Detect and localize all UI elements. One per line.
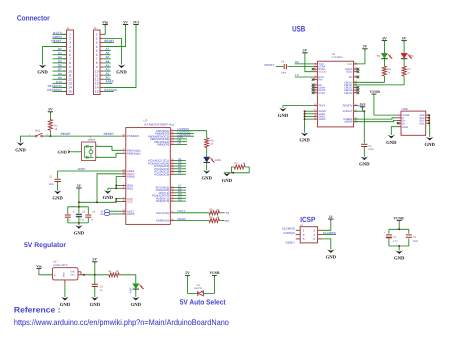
svg-text:J1: J1: [67, 26, 70, 30]
wire R7 ground rail: [224, 172, 249, 174]
svg-text:GND: GND: [201, 175, 212, 181]
svg-text:FT232RL: FT232RL: [332, 56, 343, 59]
wire R6 to RX label: [219, 219, 229, 223]
wire net A3: [175, 165, 187, 167]
wire D13/SCK to R8: [175, 127, 207, 138]
wire 3V3OUT: [354, 107, 365, 111]
wire 5V rail into cap bank: [78, 202, 80, 207]
svg-text:D2: D2: [178, 197, 182, 201]
supply Vin regulator: [36, 264, 41, 268]
wire net D4: [175, 195, 187, 197]
wire net D2: [175, 200, 187, 202]
svg-text:PD1(TXD): PD1(TXD): [156, 211, 169, 215]
svg-text:13: 13: [355, 85, 357, 88]
wire cap bank to ground: [78, 223, 80, 225]
svg-text:RX: RX: [295, 60, 299, 64]
svg-text:GND: GND: [299, 138, 310, 144]
svg-text:24: 24: [355, 75, 357, 78]
LED PWR (green): [129, 284, 143, 294]
wire U1 GND pins: [305, 111, 314, 132]
connector J4 ICSP: [296, 224, 322, 243]
ground C3: [90, 297, 101, 308]
svg-text:TX: TX: [376, 54, 380, 58]
wire TX net to RXD: [295, 73, 314, 77]
svg-text:4: 4: [315, 69, 316, 72]
svg-text:OSCI: OSCI: [346, 71, 352, 74]
wire RX LED to R4: [403, 59, 405, 66]
supply 5V RX LED: [401, 36, 406, 42]
ground TEST: [278, 108, 289, 119]
ground crystal (rotated): [57, 150, 70, 155]
svg-text:D8: D8: [178, 141, 182, 145]
diode D1 SS1P3L: [194, 284, 204, 296]
supply 5V U1 VCC: [362, 45, 367, 51]
wire J1 pin4 to ground: [43, 47, 63, 65]
svg-text:AGND: AGND: [127, 175, 135, 179]
svg-text:PB6(Xtal1): PB6(Xtal1): [127, 151, 141, 155]
svg-text:3V3: 3V3: [360, 103, 366, 107]
wire ADC7 pad: [110, 210, 122, 212]
svg-text:28: 28: [355, 67, 357, 70]
svg-text:5V: 5V: [402, 36, 407, 40]
connector J2: [94, 26, 119, 95]
node out junctions: [83, 274, 96, 276]
wire RESET to C4: [276, 66, 283, 68]
switch SW1: [29, 129, 51, 137]
svg-text:VCC: VCC: [347, 63, 352, 66]
svg-text:GND: GND: [116, 70, 127, 76]
wire R7 left to ground rail: [232, 167, 235, 173]
ground PWR LED: [131, 297, 142, 308]
node 3V3OUT junction: [363, 110, 365, 112]
svg-text:5V: 5V: [185, 271, 190, 275]
svg-text:D13/SCK: D13/SCK: [283, 231, 295, 235]
svg-text:USBDP: USBDP: [344, 121, 353, 124]
svg-text:C4: C4: [281, 60, 285, 63]
ground LED D13: [201, 170, 212, 181]
svg-text:USB: USB: [402, 107, 408, 111]
capacitor C3 1u: [92, 284, 104, 292]
node cap bank junctions: [78, 206, 80, 224]
ground VUSB caps: [394, 251, 405, 262]
wire VCC to 5V: [354, 49, 365, 64]
wire PD1 TXD to R5: [175, 209, 210, 213]
wire GND pins U3: [116, 186, 122, 189]
svg-text:AREF: AREF: [78, 167, 86, 171]
svg-text:5V: 5V: [77, 184, 82, 188]
svg-text:4.7u: 4.7u: [80, 218, 85, 221]
resistor R4 1k: [402, 66, 411, 76]
wire cap bank loop: [68, 207, 89, 223]
svg-text:TX: TX: [295, 73, 299, 77]
wire net A4: [175, 162, 187, 164]
wire 5V flag down: [78, 188, 80, 202]
svg-text:PC0(ADC0): PC0(ADC0): [154, 172, 169, 176]
svg-text:100n: 100n: [368, 148, 374, 151]
svg-text:100n: 100n: [413, 240, 419, 243]
svg-text:VCCIO: VCCIO: [319, 71, 327, 74]
wire 5V to D1: [188, 275, 198, 293]
svg-text:5V: 5V: [363, 45, 368, 49]
capacitor C6 1u: [85, 211, 95, 222]
svg-text:5V: 5V: [123, 20, 128, 24]
svg-text:RI#: RI#: [319, 79, 324, 82]
wire RESET net to U3 pin29: [50, 135, 121, 137]
svg-text:VUSB: VUSB: [394, 216, 405, 220]
wire 5V rail to VCC: [79, 201, 116, 203]
svg-text:5V Regulator: 5V Regulator: [24, 242, 66, 249]
svg-text:GND: GND: [63, 272, 66, 277]
wire USBDM to D-: [354, 118, 397, 119]
wire R8 to LED: [206, 148, 208, 158]
wire net D8: [175, 143, 188, 145]
svg-text:GND: GND: [60, 302, 71, 308]
svg-text:SH1: SH1: [419, 122, 425, 125]
capacitor C6b 100n: [406, 235, 419, 243]
supply 5V auto select: [185, 271, 190, 275]
svg-text:14: 14: [355, 88, 357, 91]
svg-text:C1: C1: [49, 176, 53, 179]
net label VUSB (caps): [394, 216, 405, 220]
wire regulator out rail: [81, 274, 109, 276]
wire PWR LED to ground: [135, 289, 137, 297]
resistor R8 1k: [205, 138, 215, 148]
svg-text:15: 15: [68, 90, 72, 94]
node 5V rail junctions: [78, 201, 98, 203]
node GND junctions U3: [115, 185, 117, 190]
capacitor C4 100n: [281, 60, 287, 74]
wire VUSB cap loop: [389, 229, 409, 246]
wire net A2: [175, 168, 187, 170]
svg-text:100n: 100n: [48, 183, 54, 186]
svg-text:GND3: GND3: [319, 118, 327, 121]
wire VCC pins U3: [116, 199, 122, 203]
ground USB shield: [424, 137, 435, 148]
svg-text:15: 15: [95, 90, 99, 94]
ground R7: [222, 173, 233, 184]
wire PD0 RXD to R6: [175, 217, 210, 221]
supply Vin J2: [102, 20, 109, 26]
ground ICSP: [326, 250, 337, 261]
wire SW1 to ground: [21, 136, 36, 142]
svg-text:Out: Out: [71, 274, 75, 277]
wire 5V flag to rail: [94, 262, 96, 275]
svg-text:PB0(ICP): PB0(ICP): [157, 143, 169, 147]
svg-text:5V: 5V: [303, 49, 308, 53]
svg-text:1: 1: [315, 61, 316, 64]
wire R4 to CBUS1: [354, 76, 405, 85]
ground cap bank: [74, 225, 85, 236]
resistor R1 1k: [108, 270, 119, 277]
ground USB: [386, 135, 397, 146]
svg-text:27: 27: [355, 69, 357, 72]
svg-text:Vin: Vin: [36, 264, 41, 268]
wire R3 to CBUS0: [354, 76, 385, 82]
wire net D11/MOSI: [175, 135, 195, 137]
svg-text:5V: 5V: [382, 36, 387, 40]
svg-text:CBUS4: CBUS4: [344, 92, 353, 95]
wire R2 to RESET net: [49, 130, 51, 136]
svg-text:ATMEGA328P-AU: ATMEGA328P-AU: [144, 122, 174, 126]
ground C1: [52, 191, 63, 202]
wire AGND: [116, 177, 122, 189]
capacitor C7 1u: [65, 211, 77, 222]
wire R1 to PWR LED: [119, 275, 136, 284]
svg-text:GND: GND: [402, 126, 408, 129]
wire to ground arrow U3: [108, 187, 116, 189]
no-connect crosses U1 left: [312, 68, 315, 94]
svg-text:NC: NC: [349, 76, 353, 79]
wire RX net to TXD: [295, 60, 314, 64]
no-connect crosses U1 right: [357, 68, 360, 94]
wire net D10: [175, 138, 188, 140]
IC U3 ATMEGA328P-AU: [122, 119, 175, 225]
svg-text:RESET: RESET: [51, 39, 61, 43]
LED TX (green): [376, 53, 392, 59]
supply 3V3 out: [360, 103, 366, 109]
wire VUSB to D1: [203, 275, 214, 293]
svg-text:C5: C5: [393, 236, 397, 239]
net label VUSB (USB): [370, 90, 381, 94]
wire 3V3 to J2 pin14: [104, 25, 136, 88]
svg-text:2: 2: [315, 64, 316, 67]
wire Y1 pin3 to XTAL2: [96, 146, 122, 150]
svg-text:R7: R7: [234, 162, 238, 165]
wire net D7: [175, 186, 187, 188]
svg-text:RESET: RESET: [61, 132, 71, 136]
svg-text:Connector: Connector: [17, 14, 50, 23]
svg-text:GND: GND: [222, 178, 233, 184]
wire LED to ground: [206, 163, 208, 171]
wire regulator GND pin: [64, 284, 66, 297]
svg-text:+: +: [384, 230, 386, 234]
svg-text:5V Auto Select: 5V Auto Select: [180, 297, 226, 306]
svg-text:TX: TX: [225, 211, 229, 215]
svg-text:RX: RX: [410, 54, 414, 58]
svg-text:D11/MOSI: D11/MOSI: [323, 231, 336, 235]
svg-text:GND: GND: [386, 140, 397, 146]
wire net A0: [175, 173, 187, 175]
svg-text:VUSB: VUSB: [370, 90, 381, 94]
wire R7 right to ground rail: [245, 167, 249, 173]
svg-text:ADC6: ADC6: [127, 212, 135, 216]
svg-text:SW1: SW1: [35, 129, 41, 132]
svg-text:GND: GND: [394, 256, 405, 262]
wire to C9: [363, 111, 365, 143]
node VUSB junctions: [398, 228, 400, 247]
svg-text:6: 6: [315, 77, 316, 80]
wire ADC6 pad: [110, 213, 122, 215]
svg-text:USB: USB: [292, 25, 305, 34]
wire net D12/MISO: [175, 132, 195, 134]
svg-text:GND: GND: [278, 113, 289, 119]
svg-text:5V: 5V: [92, 258, 97, 262]
svg-text:Vin: Vin: [102, 20, 109, 24]
wire TEST to ground: [283, 106, 313, 108]
svg-text:5V: 5V: [48, 108, 53, 112]
supply 5V regulator out: [92, 258, 97, 264]
wire Vin to regulator: [39, 269, 53, 275]
ground C9: [359, 157, 370, 168]
ground J1: [37, 65, 48, 76]
supply 5V TX LED: [382, 36, 387, 42]
svg-text:LED: LED: [215, 158, 222, 162]
LED D13: [204, 157, 222, 163]
ground regulator: [60, 297, 71, 308]
capacitor C8 4.7u polarized: [76, 211, 86, 222]
svg-text:GND: GND: [131, 302, 142, 308]
svg-text:5V: 5V: [329, 215, 334, 219]
resistor R5 1k: [209, 208, 220, 215]
svg-text:100n: 100n: [281, 72, 287, 75]
ground SW1: [15, 142, 26, 153]
wire USB shield pins: [429, 115, 431, 137]
svg-text:RESET: RESET: [104, 132, 114, 136]
svg-text:D13/SCK: D13/SCK: [178, 127, 190, 131]
svg-text:RX: RX: [225, 219, 229, 223]
svg-text:A0: A0: [178, 171, 182, 175]
svg-text:Reference :: Reference :: [14, 306, 61, 315]
wire C4 to DTR#: [287, 66, 313, 68]
wire net D6: [175, 189, 187, 191]
wire VUSB down: [398, 221, 400, 230]
resistor R6 1k: [209, 216, 220, 223]
svg-text:D1: D1: [197, 284, 201, 287]
svg-text:RESET: RESET: [265, 63, 275, 67]
supply 5V U3: [76, 184, 81, 190]
ground U3: [103, 188, 114, 201]
svg-text:PD2(INT0): PD2(INT0): [156, 199, 169, 203]
svg-text:3V3OUT: 3V3OUT: [343, 110, 353, 113]
svg-text:26: 26: [314, 103, 316, 106]
node shield junctions: [428, 114, 430, 124]
svg-text:ICSP: ICSP: [300, 215, 315, 224]
svg-text:U1: U1: [332, 52, 336, 56]
svg-text:VCC: VCC: [127, 200, 133, 204]
wire ICSP pin2 to 5V: [322, 219, 331, 230]
svg-text:SS1P3L: SS1P3L: [194, 287, 203, 290]
svg-text:GND: GND: [127, 186, 133, 190]
net label D11/MOSI ICSP: [322, 231, 336, 235]
wire rail to C3: [94, 275, 96, 284]
capacitor C9 100n: [361, 144, 374, 151]
supply 5V J2: [123, 20, 128, 26]
wire C1 to ground: [57, 182, 59, 191]
wire R5 to TX label: [219, 211, 229, 215]
wire net D5: [175, 192, 187, 194]
svg-text:J2: J2: [94, 26, 97, 30]
svg-text:GND: GND: [103, 195, 114, 201]
wire AVCC to 5V rail: [97, 174, 122, 203]
svg-text:RESET: RESET: [286, 240, 296, 244]
svg-text:GND: GND: [326, 255, 337, 261]
supply 5V reset pullup: [48, 108, 53, 114]
svg-text:GND: GND: [52, 196, 63, 202]
svg-text:12: 12: [355, 90, 357, 93]
resistor R2 1k: [48, 120, 58, 131]
wire 5V to VCCIO: [305, 53, 314, 72]
svg-text:RESET#: RESET#: [343, 105, 353, 108]
node R7 rail junction: [232, 172, 234, 174]
wire J2 pin2 to ground: [104, 38, 122, 64]
supply 5V ICSP: [328, 215, 333, 221]
wire net D9: [175, 141, 188, 143]
wire crystal ground: [71, 151, 82, 153]
svg-text:PD0(RXD): PD0(RXD): [156, 219, 169, 223]
svg-text:GND: GND: [15, 147, 26, 153]
wire Vin to J2 pin1: [104, 25, 105, 35]
wire RESET# stub: [354, 105, 366, 108]
resistor R3 1k: [382, 66, 391, 76]
connector J1: [47, 26, 73, 95]
wire C3 to ground: [94, 287, 96, 298]
wire TX LED to R3: [383, 59, 385, 66]
svg-text:18: 18: [314, 114, 316, 117]
svg-text:25: 25: [314, 109, 316, 112]
regulator U17 LM1117MPX: [52, 261, 81, 284]
resistor R7 1k: [234, 162, 246, 169]
svg-text:3V3: 3V3: [133, 20, 140, 24]
wire C9 to ground: [363, 147, 365, 157]
wire 5V to R2: [49, 112, 51, 120]
svg-text:GND: GND: [424, 142, 435, 148]
svg-text:GND: GND: [37, 70, 48, 76]
svg-text:PWR: PWR: [129, 287, 132, 293]
wire AREF net: [58, 167, 122, 178]
wire USBDP to D+: [354, 121, 397, 122]
svg-text:7: 7: [315, 111, 316, 114]
svg-text:D1/TX: D1/TX: [178, 209, 186, 213]
svg-text:VUSB: VUSB: [209, 271, 220, 275]
wire USB GND to ground: [391, 127, 396, 135]
svg-text:4.7u: 4.7u: [393, 240, 398, 243]
crystal Y1 16MHz: [82, 135, 99, 160]
svg-text:3: 3: [315, 67, 316, 70]
pad A6: [100, 213, 109, 217]
svg-text:9: 9: [315, 85, 316, 88]
svg-text:C6: C6: [413, 236, 417, 239]
wire 5V to J2 pin4: [104, 25, 126, 47]
pad A7: [100, 210, 109, 214]
svg-text:GND: GND: [74, 230, 85, 236]
capacitor C5 4.7u polarized: [384, 230, 398, 243]
capacitor C1 100n: [48, 176, 60, 186]
svg-text:https://www.arduino.cc/en/pmwi: https://www.arduino.cc/en/pmwiki.php?n=M…: [14, 318, 229, 327]
supply 3V3 J2: [133, 20, 140, 26]
svg-text:TEST: TEST: [319, 105, 326, 108]
svg-text:R1: R1: [108, 270, 112, 273]
svg-text:5: 5: [315, 75, 316, 78]
node VCC junctions: [115, 198, 117, 203]
supply VUSB auto select: [209, 271, 220, 275]
svg-text:PC6/RES: PC6/RES: [127, 134, 139, 138]
connector USB mini: [397, 107, 430, 135]
svg-text:GND: GND: [57, 150, 66, 155]
svg-text:8: 8: [315, 82, 316, 85]
LED RX (red): [401, 53, 414, 59]
IC U1 FT232RL: [313, 52, 357, 127]
wire net A1: [175, 171, 187, 173]
svg-text:GND: GND: [359, 162, 370, 168]
wire VUSB caps to ground: [398, 246, 400, 251]
ground J2: [116, 65, 127, 76]
svg-text:GND: GND: [90, 302, 101, 308]
wire net A5: [175, 160, 187, 162]
svg-text:21: 21: [314, 117, 316, 120]
wire 5V to RX LED: [403, 41, 405, 54]
node RESET junction: [49, 135, 51, 137]
svg-text:D0/RX: D0/RX: [178, 217, 186, 221]
